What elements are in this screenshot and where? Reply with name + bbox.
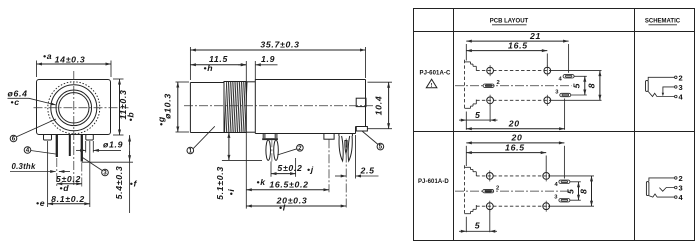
svg-text:16.5: 16.5 xyxy=(508,40,528,50)
svg-text:2: 2 xyxy=(497,80,500,86)
svg-text:PJ-601A-D: PJ-601A-D xyxy=(418,179,449,185)
svg-text:8: 8 xyxy=(587,83,597,89)
svg-text:•d: •d xyxy=(60,183,70,193)
svg-text:ø1.9: ø1.9 xyxy=(103,140,123,150)
svg-text:•e: •e xyxy=(36,198,45,208)
svg-text:3: 3 xyxy=(103,170,107,177)
svg-text:5: 5 xyxy=(571,83,581,89)
svg-text:3: 3 xyxy=(679,83,683,92)
svg-text:2: 2 xyxy=(679,174,683,183)
svg-text:20: 20 xyxy=(510,133,522,143)
svg-text:1.9: 1.9 xyxy=(261,54,275,64)
svg-text:•a: •a xyxy=(43,51,52,61)
svg-text:8.1±0.2: 8.1±0.2 xyxy=(51,194,85,204)
svg-text:2: 2 xyxy=(298,145,302,152)
svg-text:5±0.2: 5±0.2 xyxy=(277,163,302,173)
svg-text:!: ! xyxy=(431,83,433,89)
svg-text:2.5: 2.5 xyxy=(360,165,375,175)
svg-text:•h: •h xyxy=(204,63,214,73)
svg-text:16.5: 16.5 xyxy=(505,142,525,152)
svg-text:4: 4 xyxy=(26,147,30,154)
svg-text:16.5±0.2: 16.5±0.2 xyxy=(269,179,308,189)
svg-text:5.4±0.3: 5.4±0.3 xyxy=(114,166,124,200)
svg-text:•g: •g xyxy=(156,116,166,126)
svg-text:•l: •l xyxy=(279,203,286,213)
svg-text:•j: •j xyxy=(307,165,314,175)
svg-text:5.1±0.3: 5.1±0.3 xyxy=(215,166,225,200)
svg-text:6: 6 xyxy=(12,136,16,143)
svg-text:PJ-601A-C: PJ-601A-C xyxy=(420,71,451,77)
svg-text:5: 5 xyxy=(565,188,575,194)
svg-text:2: 2 xyxy=(679,73,683,82)
svg-text:•f: •f xyxy=(130,178,138,188)
svg-text:10.4: 10.4 xyxy=(374,96,384,116)
svg-text:21: 21 xyxy=(529,31,541,41)
svg-text:20: 20 xyxy=(508,119,520,129)
svg-text:0.3thk: 0.3thk xyxy=(12,162,36,171)
svg-text:3: 3 xyxy=(679,184,683,193)
svg-text:PCB LAYOUT: PCB LAYOUT xyxy=(490,19,529,25)
svg-text:2: 2 xyxy=(496,186,499,192)
svg-text:5: 5 xyxy=(379,144,383,151)
svg-text:1: 1 xyxy=(189,148,193,155)
svg-text:SCHEMATIC: SCHEMATIC xyxy=(645,19,681,25)
svg-text:•k: •k xyxy=(257,177,267,187)
svg-text:•b: •b xyxy=(125,112,135,122)
svg-text:•i: •i xyxy=(226,189,236,196)
svg-text:ø10.3: ø10.3 xyxy=(163,93,173,119)
svg-text:14±0.3: 14±0.3 xyxy=(55,55,86,65)
svg-text:5: 5 xyxy=(475,110,481,120)
svg-text:35.7±0.3: 35.7±0.3 xyxy=(260,40,299,50)
svg-text:8: 8 xyxy=(579,188,589,194)
svg-text:5: 5 xyxy=(475,221,481,231)
